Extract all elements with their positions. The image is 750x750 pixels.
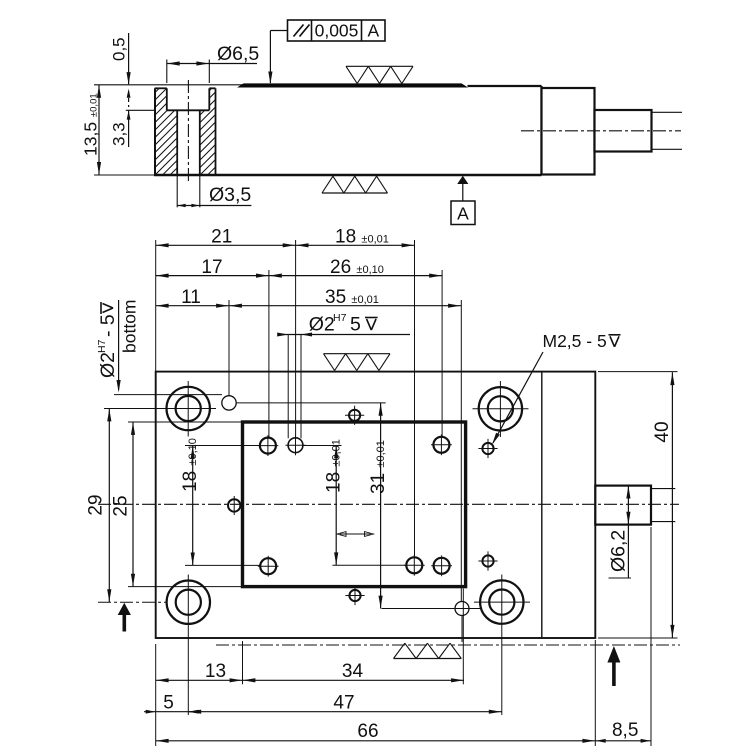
svg-text:66: 66 — [357, 721, 378, 742]
svg-text:25: 25 — [111, 495, 132, 516]
M2,5 tapped hole upper-right — [478, 439, 497, 458]
parallelism feature control frame 0,005 A — [268, 20, 385, 84]
svg-text:Ø2: Ø2 — [309, 314, 335, 336]
note dia 2 H7 depth 5 (top) — [277, 312, 410, 438]
svg-text:M2,5 - 5: M2,5 - 5 — [543, 331, 607, 351]
extension lines bottom dimension rows — [156, 527, 651, 746]
side view: drive shaft/knob stub — [595, 110, 652, 152]
svg-text:40: 40 — [652, 421, 673, 442]
hole centerline (side view) — [187, 80, 189, 183]
svg-text:0,5: 0,5 — [110, 37, 129, 61]
table pin hole dia 2 H7 top — [286, 435, 306, 455]
dimension 8,5 — [595, 720, 651, 743]
svg-text:A: A — [367, 21, 379, 41]
table hole bottom-middle — [404, 555, 425, 576]
serration symbol lower (plan) — [394, 643, 462, 658]
svg-text:Ø6,5: Ø6,5 — [217, 43, 259, 65]
svg-text:47: 47 — [333, 693, 354, 714]
datum feature symbol A — [451, 176, 475, 225]
side view: right block (carriage end) — [542, 88, 595, 175]
precision lapped top surface (thick band) — [237, 83, 468, 87]
M2,5 tapped hole upper-left — [345, 406, 364, 425]
svg-text:5: 5 — [163, 693, 174, 714]
dowel pin hole bottom (dia 2 H7) — [453, 602, 481, 643]
dimension 11 — [156, 287, 229, 308]
svg-text:17: 17 — [201, 257, 222, 278]
svg-text:Ø3,5: Ø3,5 — [209, 184, 251, 206]
left wall outline with counterbore — [155, 88, 216, 175]
dimension 21 — [156, 227, 296, 248]
dimension 26 +-0,10 — [269, 257, 442, 278]
plan view: drive shaft — [595, 486, 675, 525]
shaft continuation lines — [652, 112, 683, 149]
extension lines for upper dimension rows — [156, 240, 462, 601]
svg-text:H7: H7 — [96, 339, 108, 353]
side view: stage body outline — [94, 85, 542, 175]
svg-text:Ø6,2: Ø6,2 — [608, 530, 630, 572]
dimension 31 +-0,01 (vertical) — [237, 403, 455, 609]
dimension diameter 3,5 — [177, 175, 251, 208]
motion arrow right (bold) — [607, 646, 620, 686]
moving table outline (thick) — [243, 422, 466, 587]
plan view: internal edge of right block — [541, 373, 543, 638]
dowel pin hole top (dia 2 H7) — [222, 396, 236, 410]
dimension 17 — [156, 257, 269, 278]
table hole top-left (M2) — [258, 435, 279, 456]
serration symbol above top surface — [346, 66, 413, 83]
lower phantom centerline — [216, 644, 680, 646]
svg-text:34: 34 — [342, 661, 364, 682]
serration symbol below bottom surface — [322, 176, 388, 193]
travel direction double arrow — [337, 532, 374, 537]
svg-text:A: A — [457, 204, 469, 224]
table hole bottom-right — [431, 555, 452, 576]
svg-text:29: 29 — [86, 494, 107, 515]
svg-text:5: 5 — [350, 314, 361, 336]
svg-text:11: 11 — [181, 287, 201, 308]
M2,5 tapped hole lower-right — [478, 551, 497, 570]
counterbored mounting hole bottom-right — [474, 575, 530, 716]
note M2,5 - 5 deep — [492, 331, 621, 445]
dimension 66 — [156, 721, 596, 743]
counterbored mounting hole top-left — [161, 381, 217, 437]
centerline of shaft (side view) — [521, 130, 681, 132]
dimension 34 — [243, 661, 465, 682]
dimension 13,5 +-0,01 — [81, 85, 156, 175]
dimension 29 — [86, 409, 168, 603]
dimension 25 — [111, 422, 243, 587]
note dia 2 H7 - 5 deep from bottom (left, rotated) — [96, 300, 222, 395]
svg-text:8,5: 8,5 — [612, 720, 638, 741]
dimension diameter 6,5 — [167, 43, 260, 83]
dimension dia 6,2 — [608, 486, 632, 578]
svg-text:3,3: 3,3 — [110, 122, 129, 146]
dimension 18 +-0,01 (vertical middle) — [303, 439, 406, 565]
serration symbol upper (plan) — [324, 354, 391, 371]
svg-text:H7: H7 — [333, 312, 347, 324]
dimension 13 — [156, 661, 243, 682]
dimension 18 +-0,01 (top row) — [296, 227, 415, 248]
table hole bottom-left — [258, 556, 279, 577]
svg-text:0,005: 0,005 — [315, 21, 359, 41]
small hole on left centerline — [228, 496, 240, 515]
plan view: base plate outline — [156, 372, 596, 638]
dimension 35 +-0,01 — [229, 287, 461, 308]
svg-text:21: 21 — [211, 227, 232, 248]
svg-text:13: 13 — [205, 661, 226, 682]
M2,5 tapped hole lower-left — [345, 586, 364, 605]
dimension 47 — [188, 693, 501, 714]
dimension 18 +-0,10 (vertical left) — [180, 438, 260, 565]
horizontal centerline of plan view — [98, 503, 679, 505]
dimension 0,5 — [110, 33, 131, 107]
motion arrow left (bold) — [118, 603, 131, 632]
svg-text:Ø2: Ø2 — [97, 352, 119, 378]
counterbored mounting hole top-right — [473, 381, 529, 437]
dimension 5 — [144, 693, 201, 714]
counterbored mounting hole bottom-left — [167, 575, 210, 716]
table hole top-right — [431, 434, 452, 455]
dimension 40 — [598, 372, 678, 638]
svg-text:- 5: - 5 — [97, 314, 119, 337]
svg-text:bottom: bottom — [120, 300, 140, 354]
section hatch of left wall — [60, 85, 320, 180]
dimension 3,3 (counterbore depth) — [110, 110, 155, 147]
